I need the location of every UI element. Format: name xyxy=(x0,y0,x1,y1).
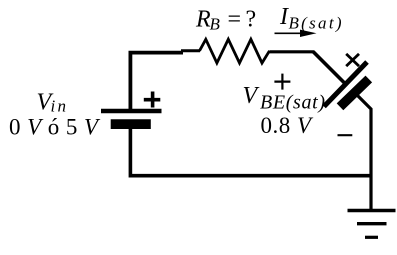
wire VBE element to right vertical xyxy=(358,96,372,212)
svg-text:?: ? xyxy=(246,7,257,33)
battery V_BE(sat) thin plate xyxy=(324,62,367,107)
svg-text:B(sat): B(sat) xyxy=(289,14,342,33)
svg-text:in: in xyxy=(51,97,67,116)
ground xyxy=(348,211,396,238)
svg-text:B: B xyxy=(210,15,221,34)
wire battery-bottom and bottom rail xyxy=(130,128,372,176)
wire resistor right lead xyxy=(270,50,315,53)
current arrow I_B(sat) xyxy=(275,30,317,37)
svg-text:0 V ó 5 V: 0 V ó 5 V xyxy=(9,115,101,140)
label V_in xyxy=(37,90,67,116)
svg-text:0.8 V: 0.8 V xyxy=(261,113,314,138)
wire battery-top to top-left corner xyxy=(130,53,183,110)
svg-text:=: = xyxy=(228,7,242,33)
label 0.8 V xyxy=(261,113,314,138)
label RB =? xyxy=(195,7,256,34)
resistor RB zigzag xyxy=(200,39,270,63)
svg-text:I: I xyxy=(279,4,289,30)
battery V_BE(sat) thick plate xyxy=(340,79,369,107)
label 0 V ó 5 V xyxy=(9,115,101,140)
label I_B(sat) xyxy=(279,4,342,33)
battery V_in bottom plate xyxy=(111,119,151,129)
x mark above VBE element xyxy=(346,54,359,66)
plus sign at battery V_in xyxy=(144,92,161,108)
minus sign at V_BE xyxy=(338,134,353,136)
wire diagonal into VBE element xyxy=(313,52,346,85)
wire resistor left lead xyxy=(181,49,200,52)
svg-text:V: V xyxy=(243,83,260,109)
svg-text:BE(sat): BE(sat) xyxy=(260,92,325,114)
battery V_in top plate xyxy=(101,109,162,114)
label V_BE(sat) xyxy=(243,83,326,114)
plus sign at V_BE xyxy=(274,74,290,90)
